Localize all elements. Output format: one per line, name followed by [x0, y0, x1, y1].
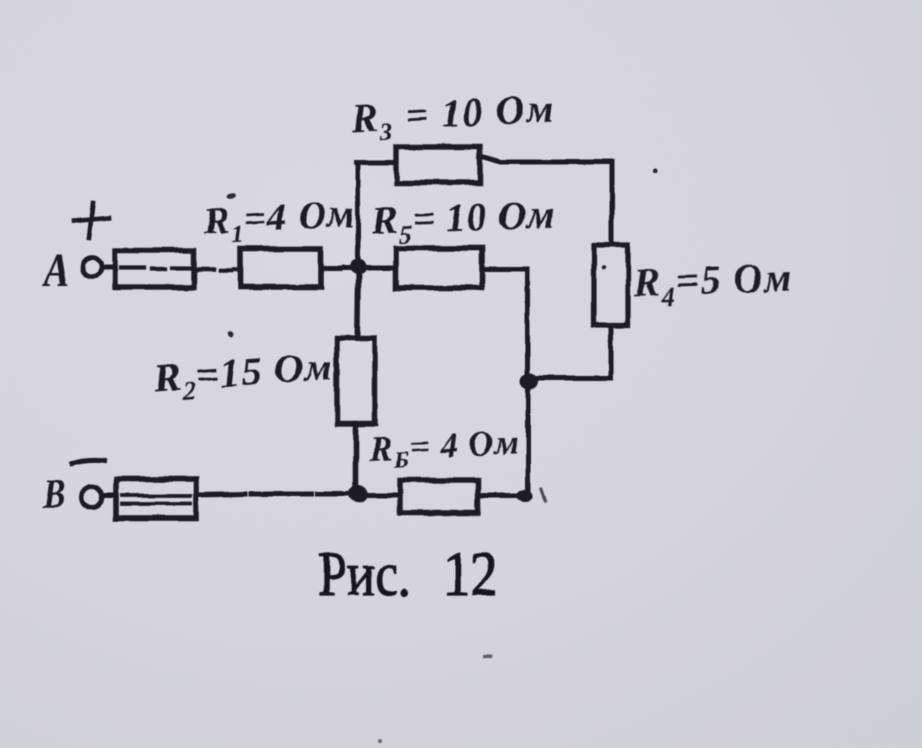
svg-text:Рис.: Рис. — [318, 541, 411, 609]
svg-text:В: В — [42, 472, 65, 518]
svg-text:А: А — [41, 244, 69, 297]
svg-text:12: 12 — [443, 540, 498, 609]
